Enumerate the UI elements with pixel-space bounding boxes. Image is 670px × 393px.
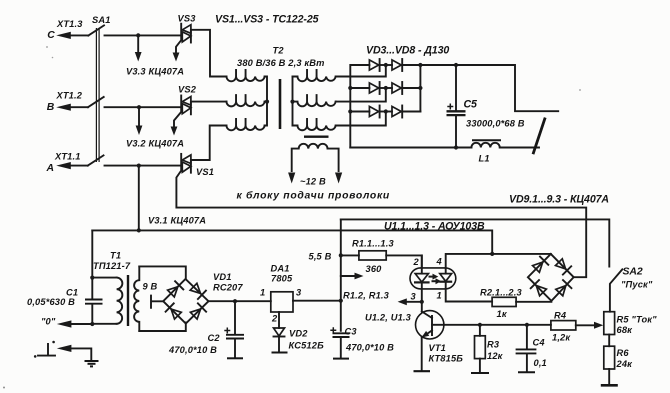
svg-text:XT1.1: XT1.1 (54, 152, 81, 162)
svg-text:R2.1...2.3: R2.1...2.3 (480, 288, 522, 298)
capacitor C2 (168, 301, 244, 358)
wire T2 primary star (265, 77, 267, 126)
node row3 midpoint (384, 109, 388, 113)
thyristor VS2 (171, 85, 197, 136)
svg-text:VD2: VD2 (289, 329, 308, 339)
wire R1.1 to opto pin2 (386, 255, 422, 268)
wire rectifier left bus (350, 65, 369, 148)
wire A drop to control rail (138, 166, 140, 231)
svg-text:к блоку подачи проволоки: к блоку подачи проволоки (237, 190, 390, 202)
svg-text:12к: 12к (487, 351, 504, 361)
node right bus row2 (418, 86, 422, 90)
svg-text:1,2к: 1,2к (552, 333, 571, 343)
svg-text:DA1: DA1 (271, 264, 290, 274)
svg-text:RC207: RC207 (213, 283, 243, 293)
node C5 top (454, 63, 458, 67)
ground symbol (57, 345, 99, 367)
svg-text:U1.2, U1.3: U1.2, U1.3 (365, 313, 412, 323)
node right bus row1 (418, 63, 422, 67)
svg-text:VD3...VD8 - Д130: VD3...VD8 - Д130 (366, 45, 449, 57)
wire VS3 out to T2 winding 1 (191, 30, 227, 77)
optocoupler U1.1 (410, 257, 456, 302)
node R1 tee (339, 253, 343, 257)
svg-text:2: 2 (271, 314, 278, 324)
svg-text:XT1.2: XT1.2 (56, 91, 83, 101)
svg-text:24к: 24к (616, 359, 634, 369)
wire secondary 2 to rectifier (336, 88, 386, 102)
diode VD8 (380, 106, 421, 118)
resistor R6 (601, 335, 633, 386)
node left bus row2 (348, 86, 352, 90)
node row2 midpoint (384, 86, 388, 90)
svg-text:С5: С5 (464, 99, 479, 111)
potentiometer R5 (604, 312, 657, 335)
thyristor VS1 (181, 154, 214, 177)
wire opto pin4 to VD9 bridge (446, 254, 551, 268)
svg-text:С3: С3 (345, 327, 358, 337)
T2 12V winding (292, 144, 339, 171)
svg-text:5,5 В: 5,5 В (309, 252, 332, 262)
svg-text:U1.1...1.3 - АОУ103В: U1.1...1.3 - АОУ103В (384, 221, 485, 233)
svg-text:0,1: 0,1 (534, 358, 547, 368)
node row1 midpoint (384, 63, 388, 67)
wire A row (105, 165, 182, 167)
svg-text:~12 В: ~12 В (300, 177, 326, 187)
node 0 output (41, 317, 92, 328)
svg-text:VS3: VS3 (178, 14, 197, 24)
svg-text:3: 3 (296, 288, 302, 298)
resistor R3 (471, 325, 504, 373)
svg-text:9 В: 9 В (143, 282, 158, 292)
node on control rail (137, 228, 141, 232)
svg-text:XT1.3: XT1.3 (56, 19, 83, 29)
bridge VD9.1 (528, 254, 574, 301)
arrow to V3.2 (126, 109, 184, 149)
svg-text:380 В/36 В 2,3 кВт: 380 В/36 В 2,3 кВт (237, 58, 325, 68)
node T1 top (90, 276, 94, 280)
label 9 V with tap mark (143, 282, 164, 308)
svg-text:1к: 1к (497, 309, 508, 319)
arrow 12V left (288, 173, 295, 184)
T2 secondary winding 3 (293, 119, 336, 130)
svg-text:V3.2 КЦ407А: V3.2 КЦ407А (126, 139, 184, 149)
arrow to V3.3 (126, 37, 184, 77)
svg-text:V3.1 КЦ407А: V3.1 КЦ407А (148, 216, 206, 226)
arrow 12V right (335, 173, 342, 184)
svg-text:3: 3 (411, 292, 417, 302)
svg-text:R3: R3 (487, 340, 500, 350)
capacitor C5 (447, 65, 525, 148)
resistor R1.1 (341, 239, 395, 275)
wire VS1 out to T2 winding 3 (191, 126, 227, 161)
scan speck (52, 57, 54, 59)
inductor L1 (471, 140, 501, 163)
transformer T1 (92, 251, 186, 332)
bridge VD1 (163, 272, 243, 324)
svg-text:КС512Б: КС512Б (289, 341, 325, 351)
wire 5V vertical (340, 219, 342, 330)
node junction B (137, 105, 141, 109)
wire 5V rail to SA2 (341, 219, 610, 266)
diode VD4 (380, 59, 421, 71)
node junction A (137, 164, 141, 168)
scan speck (3, 387, 5, 389)
svg-text:VS1...VS3 - ТС122-25: VS1...VS3 - ТС122-25 (215, 14, 320, 26)
node primary star (265, 100, 269, 104)
svg-text:"Пуск": "Пуск" (621, 280, 653, 290)
wire VS1 gate to pulse rail (176, 169, 586, 277)
svg-text:68к: 68к (617, 325, 634, 335)
svg-text:С4: С4 (533, 338, 546, 348)
svg-text:1: 1 (260, 288, 265, 298)
wire positive rail (420, 65, 558, 111)
wire T2 secondary star (292, 77, 294, 126)
regulator DA1 (260, 264, 302, 324)
svg-text:7805: 7805 (271, 274, 293, 284)
arrow to R1.2 R1.3 (341, 273, 390, 301)
T2 secondary winding 1 (293, 70, 336, 81)
svg-text:Т1: Т1 (110, 251, 121, 261)
svg-text:SA1: SA1 (92, 15, 111, 25)
wire DA1 out (293, 300, 341, 302)
electrode holder (533, 118, 545, 155)
wire VS2 out to T2 winding 2 (191, 101, 227, 103)
node C4 top (525, 323, 529, 327)
wire B row (105, 106, 182, 108)
wire R2 to VD9 bridge (516, 301, 551, 303)
diode VD7 (369, 106, 379, 118)
node R3 top (478, 323, 482, 327)
svg-text:1: 1 (437, 291, 442, 301)
node B (phase input) (47, 91, 88, 114)
svg-text:2: 2 (413, 257, 420, 267)
node C (phase input) (47, 19, 88, 41)
zener VD2 (272, 312, 325, 353)
thyristor VS3 (173, 14, 197, 62)
svg-text:R1.2, R1.3: R1.2, R1.3 (343, 291, 390, 301)
svg-text:R4: R4 (554, 311, 567, 321)
node 5V at DA1 out (339, 299, 343, 303)
node junction C (136, 33, 140, 37)
svg-text:R1.1...1.3: R1.1...1.3 (352, 239, 394, 249)
wire opto pin3 to VT1 base (421, 289, 423, 312)
node C2 top (233, 299, 237, 303)
svg-text:Т2: Т2 (273, 46, 285, 56)
diode VD6 (380, 82, 421, 94)
switch SA1 (88, 15, 111, 166)
wire phase A rail to T1 and opto bridge (92, 230, 492, 254)
capacitor C3 (330, 327, 394, 359)
arrow to U1.2 U1.3 (365, 298, 422, 322)
wire VD1 plus to DA1 (209, 300, 271, 302)
svg-text:360: 360 (366, 264, 383, 274)
resistor R4 (551, 311, 576, 343)
node C5 bottom (454, 145, 458, 149)
svg-text:R5 "Ток": R5 "Ток" (617, 315, 658, 325)
svg-text:470,0*10 В: 470,0*10 В (168, 345, 217, 355)
resistor R2.1 (480, 288, 522, 320)
scan speck (46, 46, 48, 48)
wire rectifier right bus (419, 65, 421, 112)
T2 primary winding 1 (227, 70, 265, 81)
svg-text:B: B (47, 102, 55, 113)
switch SA2 (610, 267, 653, 312)
svg-text:VS1: VS1 (196, 167, 214, 177)
node left bus row3 (348, 109, 352, 113)
svg-text:R6: R6 (617, 348, 630, 358)
svg-text:VT1: VT1 (429, 343, 447, 353)
svg-text:"0": "0" (41, 317, 56, 327)
node secondary star (290, 100, 294, 104)
diode VD5 (369, 82, 379, 94)
wire opto pin1 to R2 (446, 289, 492, 302)
svg-text:V3.3 КЦ407А: V3.3 КЦ407А (126, 67, 184, 77)
capacitor C4 (516, 325, 547, 373)
T2 primary winding 3 (227, 119, 265, 130)
chassis mark (34, 341, 55, 358)
T2 core (279, 79, 282, 129)
capacitor C1 (27, 230, 103, 324)
svg-text:470,0*10 В: 470,0*10 В (345, 343, 394, 353)
node A (phase input) (46, 152, 88, 174)
wire opto pin2 riser (421, 255, 423, 268)
diode VD3 (369, 59, 379, 71)
svg-text:VD9.1...9.3 - КЦ407А: VD9.1...9.3 - КЦ407А (509, 194, 609, 206)
svg-text:L1: L1 (479, 154, 490, 164)
svg-text:C: C (47, 30, 55, 41)
wire negative rail (350, 147, 539, 149)
T2 aux core bar (304, 135, 329, 137)
wire collector rail (444, 324, 551, 326)
node pin4 drop junction (490, 252, 494, 256)
svg-text:С2: С2 (208, 333, 221, 343)
wire secondary 3 to rectifier (336, 112, 386, 126)
scan speck (579, 89, 581, 91)
T2 primary winding 2 (227, 95, 265, 106)
svg-text:КТ815Б: КТ815Б (429, 354, 464, 364)
wire C row (105, 34, 182, 36)
node T1 bottom (90, 322, 94, 326)
svg-text:0,05*630 В: 0,05*630 В (27, 297, 75, 307)
node base junction (420, 300, 424, 304)
svg-text:33000,0*68 В: 33000,0*68 В (466, 119, 525, 129)
svg-text:ТП121-7: ТП121-7 (93, 261, 131, 271)
svg-text:VD1: VD1 (213, 272, 232, 282)
svg-text:VS2: VS2 (178, 85, 197, 95)
svg-text:A: A (46, 163, 55, 174)
T2 secondary winding 2 (293, 95, 336, 106)
svg-text:SA2: SA2 (623, 267, 643, 278)
svg-text:4: 4 (436, 257, 443, 267)
wire secondary 1 to rectifier (336, 65, 386, 77)
wiper arrow R4 to R5 (576, 322, 604, 329)
svg-text:С1: С1 (66, 288, 78, 298)
transistor VT1 (414, 311, 464, 372)
transformer T2 label (237, 46, 325, 69)
